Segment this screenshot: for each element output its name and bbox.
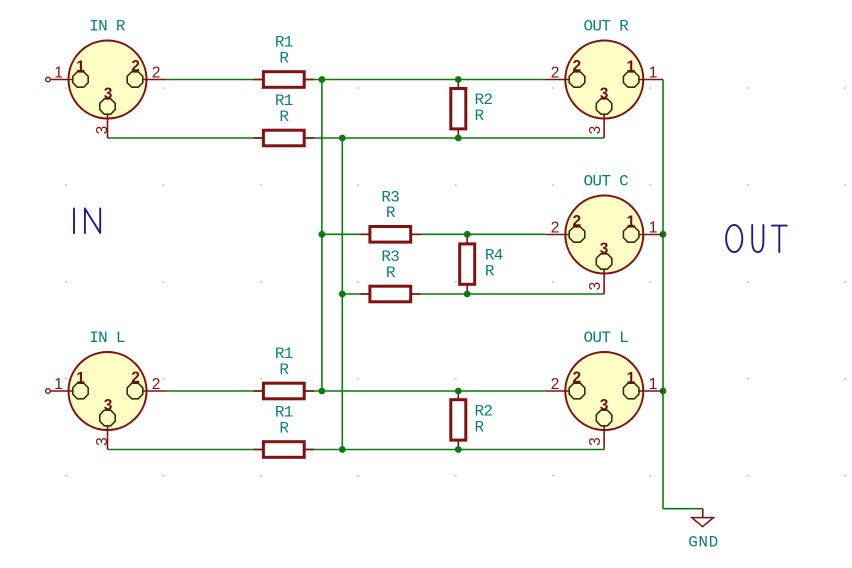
svg-text:1: 1	[649, 220, 658, 237]
resistor R1 (horizontal, value R)	[253, 345, 314, 399]
junction bus A / mid row	[319, 231, 326, 238]
OUT L pin 2 lead	[545, 390, 569, 392]
R1 lead right	[304, 449, 314, 451]
svg-text:OUT R: OUT R	[584, 18, 630, 36]
R2 lead top	[457, 79, 459, 89]
resistor R4 (vertical, value R)	[460, 234, 503, 293]
resistor R1 (horizontal, value R)	[253, 404, 314, 458]
wire net INR2 top row	[167, 79, 546, 81]
connector OUT R (XLR male, pins 1,2,3)	[545, 18, 663, 138]
GND pin stub	[702, 509, 704, 518]
svg-text:R: R	[386, 204, 396, 222]
R1 body	[263, 442, 304, 458]
svg-text:2: 2	[551, 220, 560, 237]
svg-text:1: 1	[76, 58, 85, 75]
OUT C pad 3	[596, 254, 612, 269]
svg-text:R: R	[386, 264, 396, 282]
OUT L body circle	[565, 352, 643, 430]
svg-text:2: 2	[131, 58, 140, 75]
svg-text:R: R	[475, 107, 485, 125]
svg-text:1: 1	[649, 65, 658, 82]
junction R4 top / mid row	[464, 231, 471, 238]
OUT C pad 1	[623, 227, 639, 242]
R4 lead top	[466, 234, 468, 244]
svg-text:IN L: IN L	[89, 329, 125, 347]
OUT R pad 3	[596, 99, 612, 114]
OUT L pin 3 lead	[603, 426, 605, 450]
OUT R pin 2 lead	[545, 79, 569, 81]
svg-text:R: R	[279, 361, 289, 379]
svg-text:3: 3	[600, 86, 609, 103]
svg-text:2: 2	[572, 58, 581, 75]
IN L pad 3	[100, 410, 115, 426]
resistor R3 (horizontal, value R)	[360, 189, 421, 243]
IN R pin 2 lead	[143, 79, 167, 81]
R2 lead bottom	[457, 440, 459, 450]
OUT R pad 2	[569, 72, 585, 87]
svg-text:IN R: IN R	[89, 18, 126, 36]
svg-text:3: 3	[104, 397, 113, 414]
OUT C pin 1 lead	[639, 234, 663, 236]
svg-text:2: 2	[152, 376, 161, 393]
connector IN L (XLR female, pins 1,2,3)	[46, 329, 167, 449]
R1 lead left	[253, 390, 263, 392]
GND triangle	[692, 518, 714, 527]
OUT C pin 3 lead	[603, 269, 605, 294]
svg-text:3: 3	[104, 86, 113, 103]
resistor R2 (vertical, value R)	[451, 390, 493, 449]
OUT R body circle	[565, 41, 643, 119]
svg-text:1: 1	[54, 376, 63, 393]
resistor R2 (vertical, value R)	[451, 79, 493, 138]
graphic text IN	[74, 209, 100, 234]
svg-text:2: 2	[572, 370, 581, 387]
IN R pin 3 lead	[107, 114, 109, 138]
OUT C pin 2 lead	[545, 234, 569, 236]
wire net INL2 bottom row	[167, 390, 546, 392]
IN R pad 3	[100, 99, 115, 114]
junction R2 bottom / bottom lower row	[455, 446, 462, 453]
svg-text:1: 1	[76, 370, 85, 387]
wire output common vertical	[662, 80, 664, 509]
IN L pin 1 lead	[46, 389, 73, 394]
OUT C pad 2	[569, 227, 585, 242]
R4 body	[460, 244, 475, 284]
IN L body circle	[69, 352, 147, 430]
svg-text:2: 2	[131, 370, 140, 387]
IN L pad 1	[73, 383, 88, 399]
R3 lead right	[411, 293, 421, 295]
svg-text:3: 3	[587, 282, 604, 291]
svg-text:2: 2	[572, 213, 581, 230]
IN R pin 1 lead	[46, 77, 73, 82]
OUT L pad 2	[569, 383, 585, 399]
wire net INR3 top row lower	[108, 137, 605, 139]
svg-text:OUT C: OUT C	[584, 173, 629, 191]
svg-text:3: 3	[94, 126, 111, 135]
junction R2 top / bottom row	[455, 388, 462, 395]
svg-text:1: 1	[54, 65, 63, 82]
R2 body	[451, 89, 466, 129]
R4 lead bottom	[466, 284, 468, 294]
junction bus A / top row	[319, 76, 326, 83]
junction bus B / bottom lower row	[339, 446, 346, 453]
IN L pin 3 lead	[107, 426, 109, 450]
R1 lead left	[253, 79, 263, 81]
OUT R pin 3 lead	[603, 114, 605, 138]
R1 body	[263, 383, 304, 399]
OUT L pad 3	[596, 410, 612, 426]
svg-text:OUT L: OUT L	[584, 329, 629, 347]
OUT R pad 1	[623, 72, 639, 87]
R2 body	[451, 400, 466, 440]
junction R4 bottom / mid lower row	[464, 291, 471, 298]
junction out common / OUT C pin1	[660, 231, 667, 238]
svg-text:1: 1	[626, 213, 635, 230]
svg-text:2: 2	[551, 376, 560, 393]
svg-text:R: R	[279, 419, 289, 437]
junction bus A / bottom row	[319, 388, 326, 395]
svg-text:3: 3	[587, 126, 604, 135]
connector OUT C (XLR male, pins 1,2,3)	[545, 173, 663, 294]
ground symbol GND	[688, 509, 719, 552]
svg-text:3: 3	[600, 397, 609, 414]
IN R pad 1	[73, 72, 88, 87]
R1 lead right	[304, 137, 314, 139]
svg-text:1: 1	[626, 370, 635, 387]
svg-text:3: 3	[94, 437, 111, 446]
wire vertical bus B	[341, 138, 343, 450]
resistor R3 (horizontal, value R)	[360, 248, 421, 302]
svg-text:GND: GND	[688, 533, 719, 551]
R1 lead right	[304, 390, 314, 392]
IN L pad 2	[127, 383, 143, 399]
svg-text:3: 3	[600, 241, 609, 258]
R1 lead left	[253, 449, 263, 451]
R1 body	[263, 72, 304, 88]
svg-text:3: 3	[587, 437, 604, 446]
junction R2 bottom / top lower row	[455, 135, 462, 142]
OUT R pin 1 lead	[639, 79, 663, 81]
svg-text:R: R	[485, 263, 495, 281]
svg-text:R: R	[279, 49, 289, 67]
R1 lead right	[304, 79, 314, 81]
R1 lead left	[253, 137, 263, 139]
IN R pad 2	[127, 72, 143, 87]
R3 lead left	[360, 293, 370, 295]
R3 body	[370, 227, 411, 243]
connector OUT L (XLR male, pins 1,2,3)	[545, 329, 663, 449]
svg-text:1: 1	[649, 376, 658, 393]
junction out common / OUT L pin1	[660, 388, 667, 395]
OUT L pad 1	[623, 383, 639, 399]
junction bus B / mid lower row	[339, 291, 346, 298]
R3 body	[370, 286, 411, 302]
IN R body circle	[69, 41, 147, 119]
OUT C body circle	[565, 196, 643, 274]
R2 lead top	[457, 390, 459, 400]
wire net mid row lower	[342, 293, 604, 295]
graphic text OUT	[726, 225, 787, 252]
connector IN R (XLR female, pins 1,2,3)	[46, 18, 167, 138]
R2 lead bottom	[457, 129, 459, 139]
wire output common to ground	[663, 508, 703, 510]
svg-text:R: R	[475, 418, 485, 436]
junction R2 top / top row	[455, 76, 462, 83]
svg-text:2: 2	[551, 65, 560, 82]
svg-text:2: 2	[152, 65, 161, 82]
wire vertical bus A	[321, 80, 323, 392]
svg-text:1: 1	[626, 58, 635, 75]
junction bus B / top lower row	[339, 135, 346, 142]
wire net INL3 bottom row lower	[108, 449, 605, 451]
IN L pin 2 lead	[143, 390, 167, 392]
wire net mid row upper	[322, 233, 545, 235]
resistor R1 (horizontal, value R)	[253, 92, 314, 146]
R3 lead left	[360, 233, 370, 235]
OUT L pin 1 lead	[639, 390, 663, 392]
svg-text:R: R	[279, 108, 289, 126]
R3 lead right	[411, 233, 421, 235]
R1 body	[263, 130, 304, 146]
resistor R1 (horizontal, value R)	[253, 34, 314, 88]
